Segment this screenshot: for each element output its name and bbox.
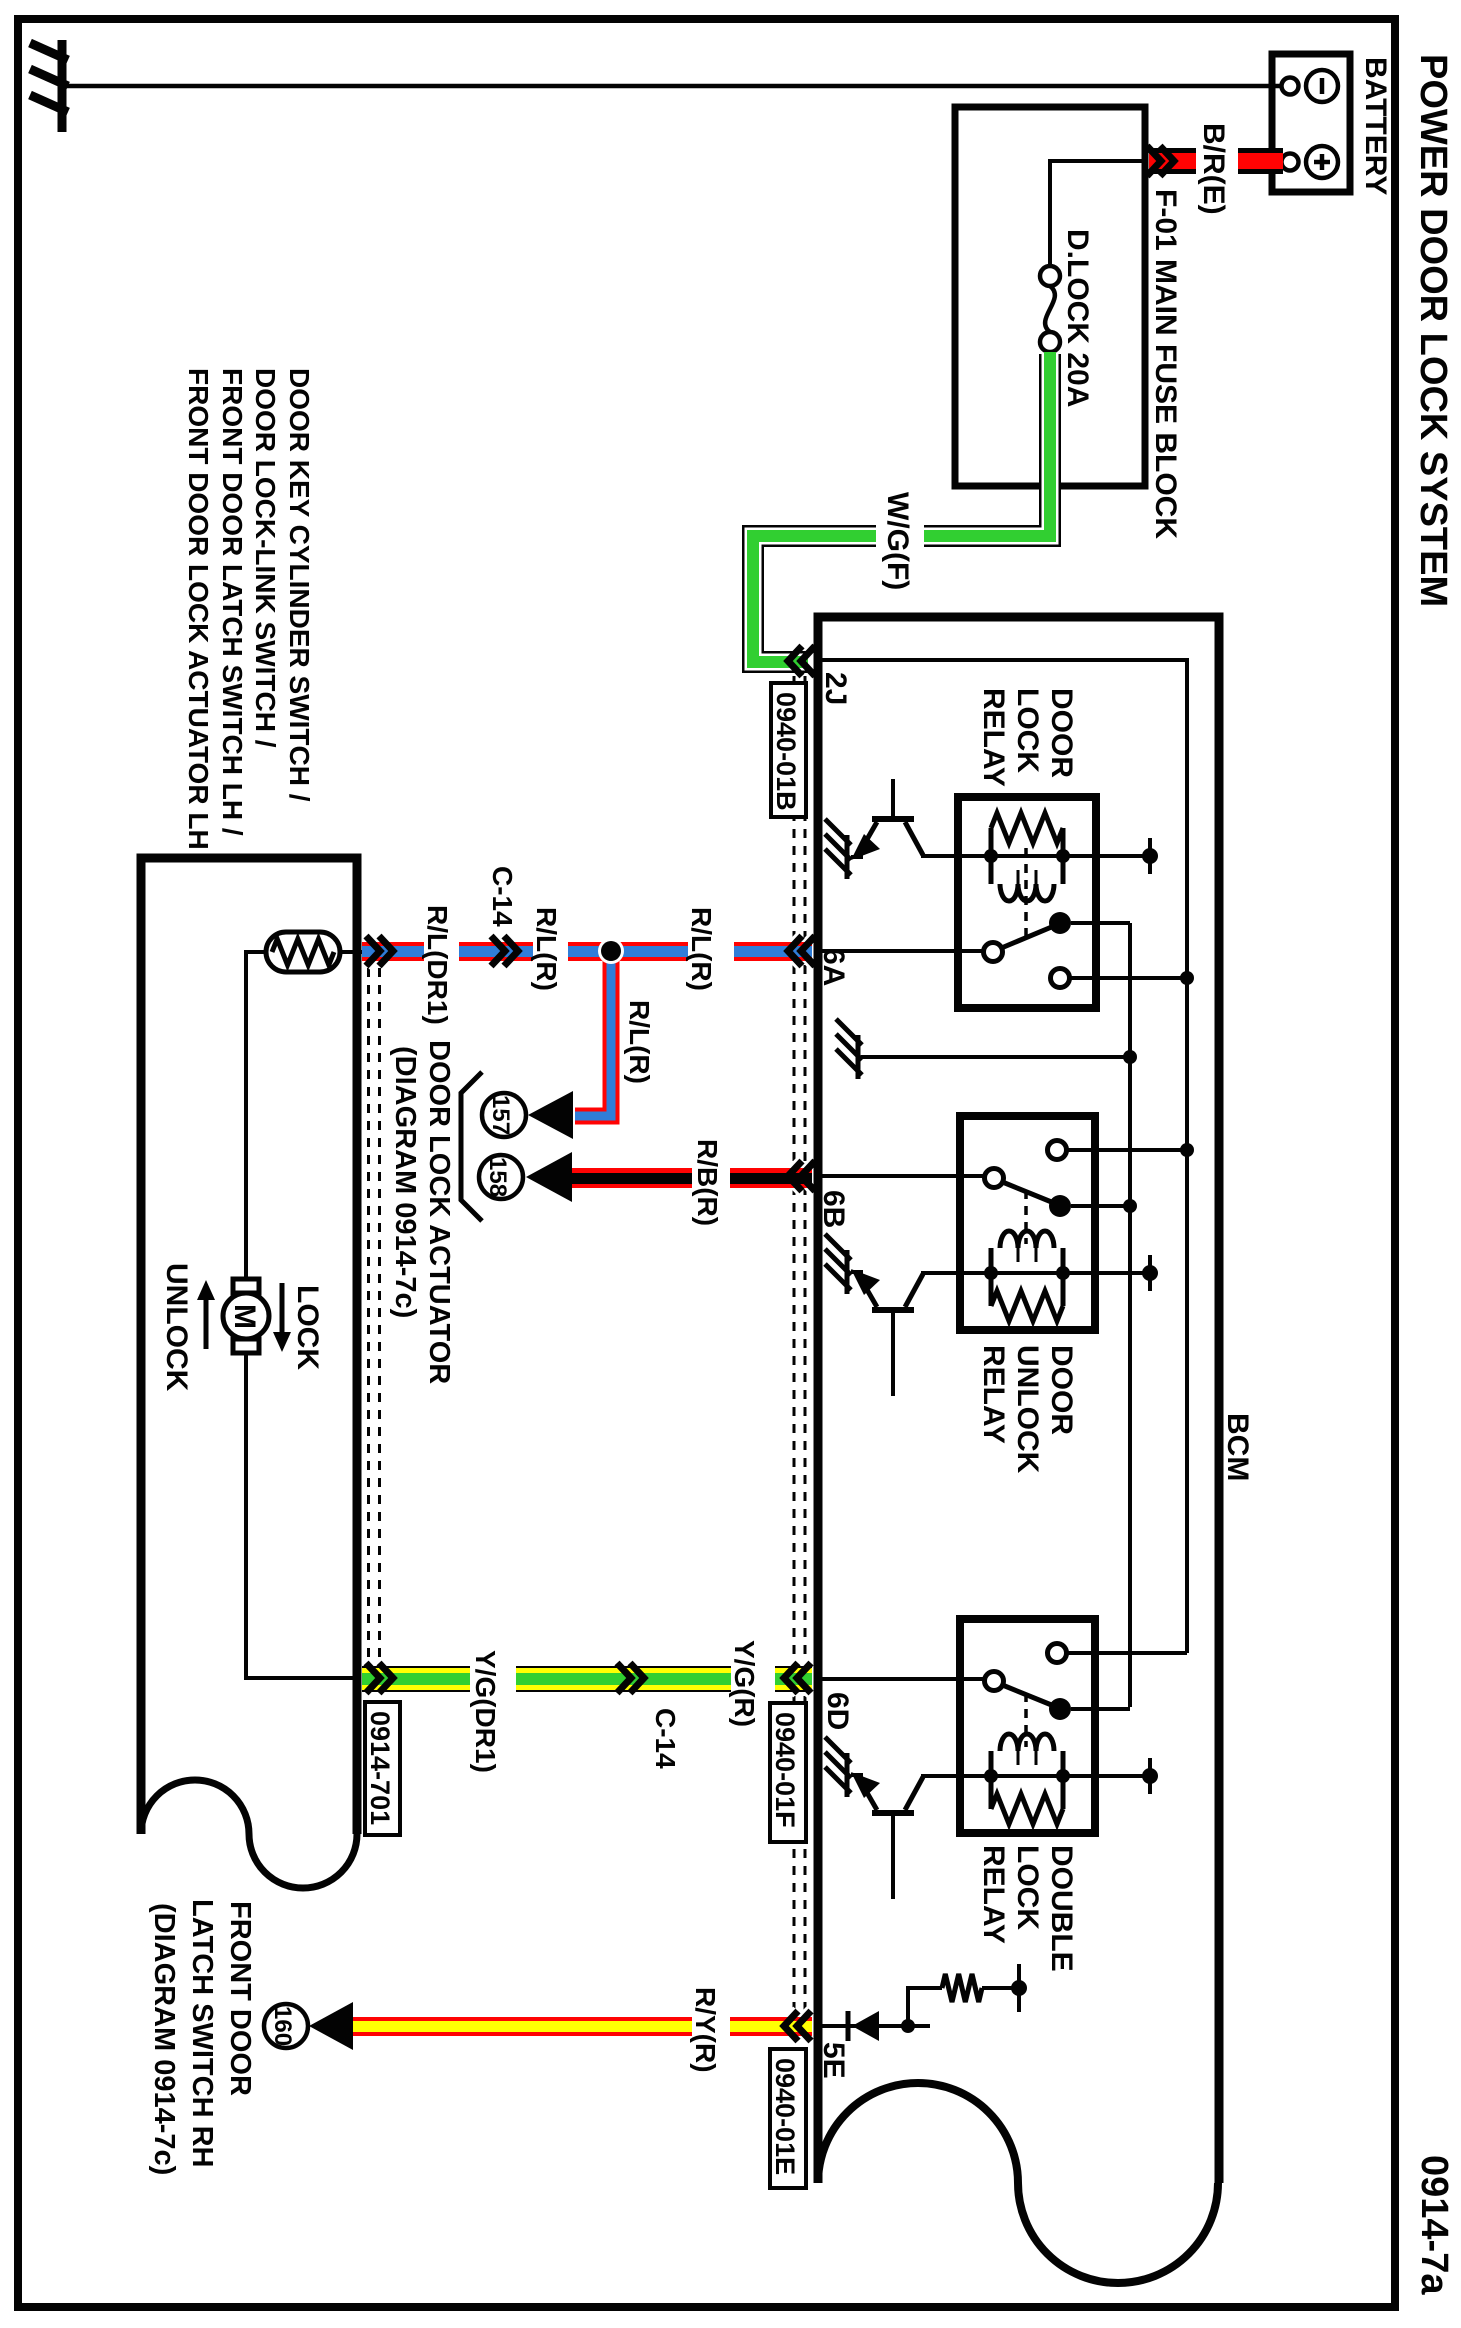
svg-text:R/Y(R): R/Y(R) [690,1987,721,2073]
wire Y/G (door to BCM 6D) [362,1666,812,1692]
node B+ stub relay1 [1148,838,1152,874]
svg-text:FRONT DOOR LOCK ACTUATOR LH: FRONT DOOR LOCK ACTUATOR LH [183,368,214,850]
svg-text:0914-701: 0914-701 [365,1711,395,1825]
svg-text:POWER DOOR LOCK SYSTEM: POWER DOOR LOCK SYSTEM [1412,54,1454,607]
transistor Q1 [851,779,923,860]
svg-text:DOOR: DOOR [1045,1345,1078,1435]
svg-text:UNLOCK: UNLOCK [160,1263,193,1392]
connector chevron 5E [784,2011,811,2041]
svg-text:UNLOCK: UNLOCK [1011,1345,1044,1474]
wire W/G(F) fuse to BCM 2J [753,352,1050,662]
wire B/R(E) battery to fuse block [1149,148,1283,174]
motor M1 (door lock actuator) [223,1279,269,1353]
svg-text:0940-01E: 0940-01E [770,2058,800,2175]
svg-text:B/R(E): B/R(E) [1197,123,1230,215]
connector label 0940-01E [770,2049,806,2188]
node 157 [482,1093,526,1137]
svg-text:C-14: C-14 [650,1708,681,1769]
arrow UNLOCK [197,1280,215,1349]
ground G1 (battery ground) [30,40,68,132]
label W/G(F) [876,488,924,592]
wire relay2 coil drive line [921,1271,1150,1275]
connector chevron door R/L [366,936,393,966]
door unit box (switches/actuator LH) [141,858,357,1834]
ground G4 (relay2 transistor emitter) [825,1234,851,1294]
svg-text:FRONT DOOR LATCH SWITCH LH /: FRONT DOOR LATCH SWITCH LH / [217,368,248,836]
diode D1 [848,2011,879,2041]
svg-text:6D: 6D [821,1692,854,1730]
node 158 [479,1155,523,1199]
svg-text:0940-01F: 0940-01F [770,1712,800,1828]
wire R/L (door to BCM 6A) [362,942,812,961]
svg-text:BCM: BCM [1221,1413,1254,1481]
svg-text:RELAY: RELAY [977,1345,1010,1444]
connector label 0940-01F [770,1703,806,1842]
connector chevron C-14 (R/L) [491,936,518,966]
connector chevron 6A [788,936,815,966]
svg-text:158: 158 [484,1157,511,1197]
svg-text:R/L(R): R/L(R) [531,907,562,991]
battery B1 [1272,54,1350,192]
fuse block F-01 box [955,107,1145,486]
wire 6D pin to relay3 pivot [818,1677,985,1681]
svg-text:R/L(R): R/L(R) [686,907,717,991]
svg-text:2J: 2J [819,672,852,705]
dashed connector line pair (BCM side) [794,676,805,2012]
connector label 0940-01B [771,683,806,817]
wire relay2 top contact to rail junction [1180,1143,1194,1157]
wire motor to Y/G row [246,1353,357,1678]
svg-text:R/L(R): R/L(R) [624,1000,655,1084]
svg-text:0914-7a: 0914-7a [1413,2155,1455,2295]
connector chevron at fuse block [1147,146,1174,176]
svg-text:LOCK: LOCK [1011,688,1044,773]
resistor R1 (5E pull-up) [942,1974,982,2002]
connector chevron 6B [788,1161,815,1191]
node B+ rail from 2J [818,660,1187,1653]
bracket door lock actuator [461,1072,482,1221]
wire battery negative to ground [66,84,1282,89]
svg-text:5E: 5E [817,2042,850,2079]
svg-text:(DIAGRAM 0914-7c): (DIAGRAM 0914-7c) [148,1903,180,2175]
svg-text:D.LOCK 20A: D.LOCK 20A [1061,229,1094,407]
node 5E junction [901,2019,915,2033]
wire 5E to resistor [908,1988,942,2026]
node R/L junction [598,938,624,964]
svg-text:RELAY: RELAY [977,688,1010,787]
ground G3 (relay1 transistor emitter) [825,819,851,879]
svg-text:157: 157 [487,1095,514,1135]
ground G2 (BCM internal) [836,1019,862,1079]
node B+ stub 5E [1017,1964,1021,2012]
svg-text:0940-01B: 0940-01B [771,692,801,811]
svg-text:Y/G(DR1): Y/G(DR1) [470,1650,501,1773]
svg-text:DOOR KEY CYLINDER SWITCH /: DOOR KEY CYLINDER SWITCH / [284,368,315,802]
node 160 [264,2004,308,2048]
wire relay3 coil drive line [921,1774,1150,1778]
connector chevron 2J [788,646,815,676]
svg-text:M: M [228,1304,261,1329]
wire 5E pin line [818,2024,930,2028]
svg-text:RELAY: RELAY [977,1845,1010,1944]
svg-text:6B: 6B [817,1190,850,1228]
wire resistor to stub [982,1986,1019,1990]
transistor Q3 [851,1772,923,1899]
fuse D.LOCK 20A [1040,266,1060,352]
node vertical line relay outputs [1128,923,1132,1707]
arrow to 158 [526,1152,572,1202]
relay U1 DOOR LOCK RELAY [958,797,1096,1008]
svg-text:F-01 MAIN FUSE BLOCK: F-01 MAIN FUSE BLOCK [1149,189,1182,539]
svg-text:DOUBLE: DOUBLE [1045,1845,1078,1972]
wire R/L branch to 157 [575,950,611,1116]
svg-text:(DIAGRAM 0914-7c): (DIAGRAM 0914-7c) [389,1046,421,1318]
connector chevron C-14 (Y/G) [617,1663,644,1693]
svg-text:R/L(DR1): R/L(DR1) [422,905,453,1025]
svg-text:LOCK: LOCK [291,1285,324,1370]
wire capsule to motor [246,952,266,1281]
relay U2 DOOR UNLOCK RELAY [960,1116,1187,1330]
wire R/Y (BCM 5E to 160) [353,2017,812,2036]
connector chevron door Y/G [366,1663,393,1693]
wire relay1 NC contact to rail junction [1180,971,1194,985]
svg-text:C-14: C-14 [487,866,518,927]
wire ground to junction [861,1055,1130,1059]
svg-text:LATCH SWITCH RH: LATCH SWITCH RH [186,1899,218,2167]
svg-text:6A: 6A [817,948,850,986]
svg-text:R/B(R): R/B(R) [692,1139,723,1226]
ground G5 (relay3 transistor emitter) [825,1737,851,1797]
wire relay1 NC contact out [1069,976,1187,980]
node B+ stub relay3 [1148,1758,1152,1794]
wire capsule to box edge [340,950,362,954]
svg-text:BATTERY: BATTERY [1359,57,1392,195]
wire R/B (158 to BCM 6B) [572,1168,812,1188]
connector chevron 6D [784,1663,811,1693]
resistor R2 (door lock-link switch) [266,932,340,972]
svg-text:DOOR LOCK-LINK SWITCH /: DOOR LOCK-LINK SWITCH / [250,368,281,748]
BCM bottom break curve [818,2083,1218,2283]
wire inside fuse block to fuse [1050,161,1143,266]
dashed connector line pair (door side) [369,968,380,1665]
svg-text:DOOR: DOOR [1045,688,1078,778]
svg-text:LOCK: LOCK [1011,1845,1044,1930]
svg-text:W/G(F): W/G(F) [881,492,914,590]
wire 6B pin to relay2 pivot [818,1174,985,1178]
wire relay1 coil drive line [921,854,1150,858]
door unit bottom break curve [141,1780,357,1888]
wire 6A pin to relay1 pivot [818,949,985,953]
connector label 0914-701 [365,1702,400,1835]
node B+ stub relay2 [1148,1255,1152,1291]
wire relay1 NO contact out [1071,921,1130,925]
transistor Q2 [851,1269,923,1396]
svg-text:Y/G(R): Y/G(R) [729,1640,760,1727]
BCM box [818,617,1219,2183]
arrow to 157 [528,1091,573,1139]
arrow LOCK [273,1283,291,1352]
relay U3 DOUBLE LOCK RELAY [960,1619,1187,1833]
svg-text:DOOR LOCK ACTUATOR: DOOR LOCK ACTUATOR [423,1040,455,1384]
svg-text:FRONT DOOR: FRONT DOOR [224,1901,256,2096]
arrow to 160 [309,2002,353,2050]
svg-text:160: 160 [269,2006,296,2046]
